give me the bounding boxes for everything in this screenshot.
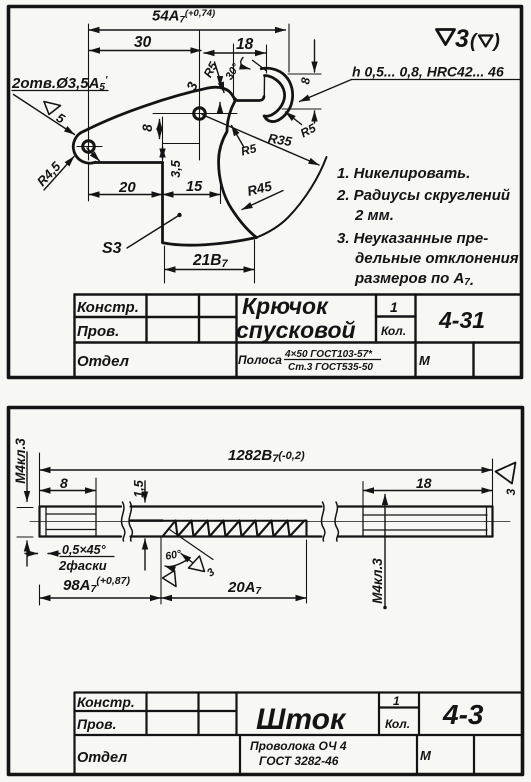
svg-text:2 мм.: 2 мм. bbox=[354, 207, 394, 224]
svg-text:Констр.: Констр. bbox=[77, 694, 135, 710]
svg-text:Проволока ОЧ 4: Проволока ОЧ 4 bbox=[250, 739, 347, 753]
svg-text:дельные отклонения: дельные отклонения bbox=[355, 250, 519, 267]
svg-text:8: 8 bbox=[60, 475, 68, 491]
svg-text:Пров.: Пров. bbox=[77, 716, 117, 732]
svg-text:1: 1 bbox=[393, 694, 400, 708]
svg-text:R35: R35 bbox=[267, 131, 294, 150]
svg-text:18: 18 bbox=[236, 36, 254, 53]
svg-text:2. Радиусы скруглений: 2. Радиусы скруглений bbox=[336, 187, 510, 204]
svg-text:Ст.3 ГОСТ535-50: Ст.3 ГОСТ535-50 bbox=[288, 362, 373, 373]
svg-text:3. Неуказанные пре-: 3. Неуказанные пре- bbox=[337, 230, 488, 247]
svg-text:Полоса: Полоса bbox=[238, 353, 282, 367]
svg-text:20А7: 20А7 bbox=[227, 579, 262, 597]
svg-text:R5: R5 bbox=[240, 141, 259, 158]
svg-text:спусковой: спусковой bbox=[236, 317, 356, 343]
svg-text:1. Никелировать.: 1. Никелировать. bbox=[337, 165, 470, 182]
svg-text:20: 20 bbox=[118, 179, 136, 196]
svg-text:30°: 30° bbox=[223, 61, 242, 82]
svg-text:0,5×45°: 0,5×45° bbox=[62, 543, 107, 557]
svg-text:98А7(+0,87): 98А7(+0,87) bbox=[63, 575, 130, 595]
svg-text:S3: S3 bbox=[102, 240, 122, 257]
svg-text:3: 3 bbox=[455, 25, 469, 53]
svg-text:h 0,5... 0,8, HRC42... 46: h 0,5... 0,8, HRC42... 46 bbox=[352, 64, 504, 80]
svg-text:3: 3 bbox=[205, 566, 217, 579]
svg-text:1: 1 bbox=[390, 299, 398, 315]
svg-text:3,5: 3,5 bbox=[169, 159, 183, 177]
svg-text:М4кл.3: М4кл.3 bbox=[13, 438, 28, 484]
svg-text:54А7(+0,74): 54А7(+0,74) bbox=[152, 8, 215, 26]
svg-text:Крючок: Крючок bbox=[242, 293, 329, 319]
svg-text:Отдел: Отдел bbox=[77, 353, 130, 370]
svg-text:R45: R45 bbox=[246, 178, 274, 199]
svg-text:8: 8 bbox=[298, 76, 313, 85]
svg-text:Шток: Шток bbox=[256, 703, 347, 736]
svg-text:М: М bbox=[420, 748, 432, 763]
svg-text:15: 15 bbox=[186, 179, 203, 195]
svg-text:Констр.: Констр. bbox=[77, 299, 139, 316]
svg-text:4-3: 4-3 bbox=[442, 699, 484, 730]
svg-text:Отдел: Отдел bbox=[77, 750, 127, 766]
svg-text:2фаски: 2фаски bbox=[58, 558, 107, 573]
svg-text:Кол.: Кол. bbox=[381, 324, 406, 338]
svg-text:1282В7(-0,2): 1282В7(-0,2) bbox=[228, 447, 305, 465]
svg-text:): ) bbox=[492, 31, 500, 52]
svg-text:Кол.: Кол. bbox=[385, 717, 410, 731]
svg-text:размеров по А7.: размеров по А7. bbox=[354, 270, 474, 289]
svg-text:30: 30 bbox=[134, 34, 152, 51]
svg-text:3: 3 bbox=[183, 80, 201, 93]
svg-text:4×50 ГОСТ103-57*: 4×50 ГОСТ103-57* bbox=[284, 349, 373, 360]
svg-text:2отв.Ø3,5А5': 2отв.Ø3,5А5' bbox=[11, 75, 108, 93]
svg-text:4-31: 4-31 bbox=[438, 307, 485, 333]
svg-text:М: М bbox=[419, 353, 431, 368]
svg-text:R5: R5 bbox=[201, 59, 221, 79]
svg-text:60°: 60° bbox=[164, 548, 183, 563]
svg-text:18: 18 bbox=[416, 475, 432, 491]
svg-text:(: ( bbox=[470, 31, 479, 52]
svg-text:21В7: 21В7 bbox=[192, 252, 228, 270]
svg-text:Пров.: Пров. bbox=[77, 323, 119, 340]
svg-text:М4кл.3: М4кл.3 bbox=[370, 558, 385, 604]
svg-text:3: 3 bbox=[504, 488, 518, 495]
svg-text:ГОСТ 3282-46: ГОСТ 3282-46 bbox=[259, 754, 339, 768]
svg-text:8: 8 bbox=[140, 124, 155, 132]
svg-text:5: 5 bbox=[54, 110, 68, 127]
svg-text:1,5: 1,5 bbox=[132, 479, 146, 497]
